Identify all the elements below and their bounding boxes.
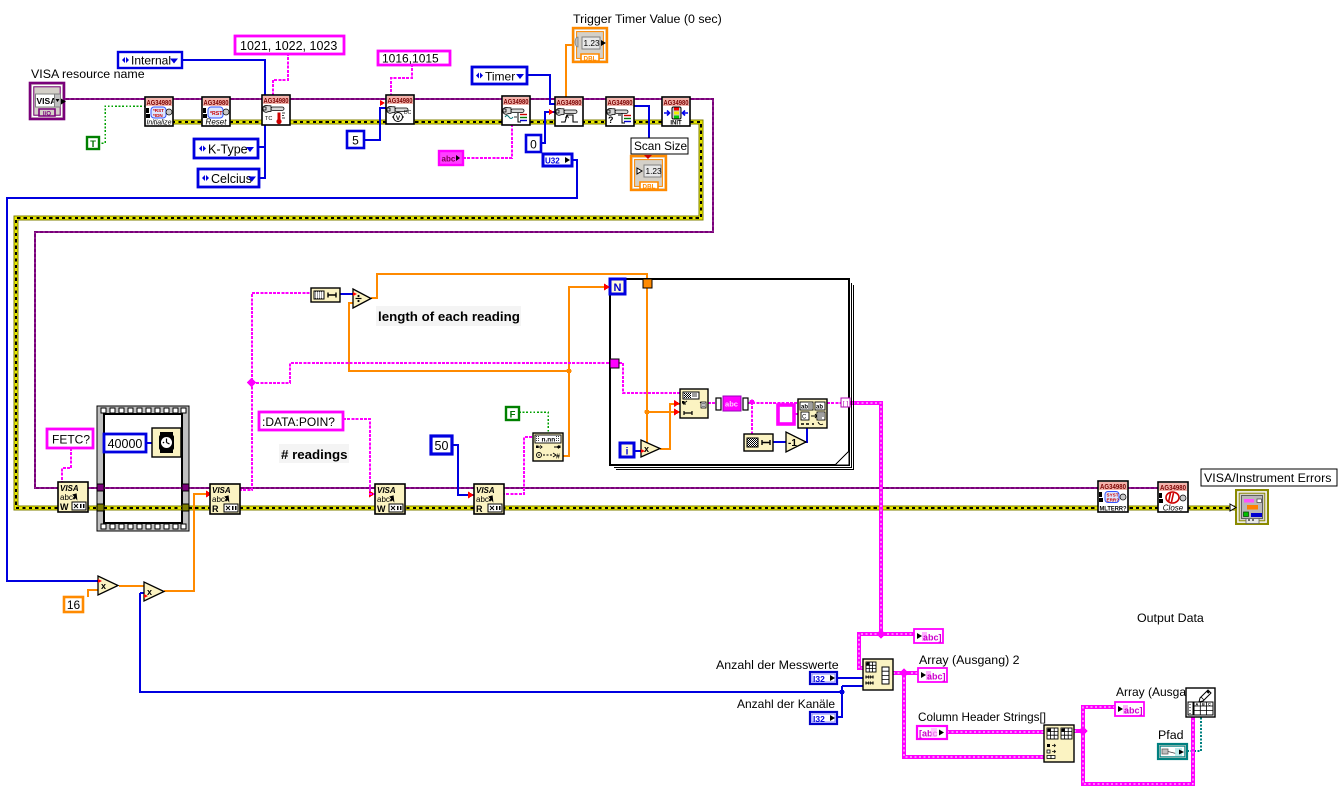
svg-text:MLTERR?: MLTERR? xyxy=(1100,506,1127,513)
svg-text:VISA resource name: VISA resource name xyxy=(31,67,145,81)
svg-text:F: F xyxy=(510,410,516,421)
svg-text:abc: abc xyxy=(442,155,456,164)
svg-text:Close: Close xyxy=(1163,504,1184,513)
svg-text:I/O: I/O xyxy=(43,111,51,118)
svg-text:DBL: DBL xyxy=(584,55,597,62)
svg-text:N: N xyxy=(614,282,622,294)
svg-text:-1: -1 xyxy=(788,438,797,449)
svg-text:Internal: Internal xyxy=(131,54,171,68)
svg-text:AG34980: AG34980 xyxy=(1160,483,1186,492)
svg-text:Anzahl der Messwerte: Anzahl der Messwerte xyxy=(716,658,839,672)
svg-text:*RST: *RST xyxy=(210,111,223,117)
svg-text:A: A xyxy=(1196,703,1199,707)
svg-text:R: R xyxy=(212,504,219,514)
svg-text:ab: ab xyxy=(816,405,823,411)
svg-text:I32: I32 xyxy=(813,714,825,724)
svg-text:W: W xyxy=(377,504,386,514)
svg-text:Celcius: Celcius xyxy=(211,172,252,186)
svg-text:Pfad: Pfad xyxy=(1158,728,1184,742)
svg-text:FETC?: FETC? xyxy=(52,433,90,447)
svg-text:[ ]: [ ] xyxy=(843,401,849,408)
svg-text:length of each reading: length of each reading xyxy=(378,309,520,324)
svg-text:T: T xyxy=(90,139,96,150)
svg-text:K-Type: K-Type xyxy=(208,143,248,157)
svg-text:1.23: 1.23 xyxy=(584,38,601,48)
svg-text:# readings: # readings xyxy=(281,447,348,462)
svg-text:ERR?: ERR? xyxy=(1107,498,1120,503)
svg-text:I32: I32 xyxy=(813,674,825,684)
svg-text:TC: TC xyxy=(265,116,272,122)
svg-text:abc]: abc] xyxy=(923,633,942,643)
svg-text:x: x xyxy=(644,444,649,454)
svg-text:U32: U32 xyxy=(545,157,560,166)
svg-text:x: x xyxy=(147,587,152,597)
svg-text:*IDN: *IDN xyxy=(153,113,163,118)
svg-text:DBL: DBL xyxy=(643,183,656,190)
svg-text:#: # xyxy=(556,454,560,461)
svg-text::DATA:POIN?: :DATA:POIN? xyxy=(262,415,335,429)
svg-text:1.23: 1.23 xyxy=(646,166,663,176)
svg-text:V: V xyxy=(396,115,401,122)
svg-text:abc: abc xyxy=(725,400,738,409)
svg-text:R: R xyxy=(476,504,483,514)
svg-text:1016,1015: 1016,1015 xyxy=(382,52,439,66)
svg-text:VISA/Instrument Errors: VISA/Instrument Errors xyxy=(1204,471,1331,485)
svg-text:Column Header Strings[]: Column Header Strings[] xyxy=(918,711,1046,724)
svg-text:INIT: INIT xyxy=(670,121,682,127)
svg-text:abc]: abc] xyxy=(927,672,946,682)
svg-text:1021, 1022, 1023: 1021, 1022, 1023 xyxy=(240,39,337,53)
svg-text:C: C xyxy=(1208,703,1211,707)
svg-text:40000: 40000 xyxy=(108,437,143,451)
svg-text:abc]: abc] xyxy=(1124,706,1143,716)
svg-text:Initialize: Initialize xyxy=(147,120,172,127)
svg-text:Output Data: Output Data xyxy=(1137,611,1204,625)
svg-text:Reset: Reset xyxy=(206,118,228,127)
svg-text:Timer: Timer xyxy=(485,70,515,84)
svg-text:W: W xyxy=(60,502,69,512)
svg-text:i: i xyxy=(626,447,629,458)
svg-text:?: ? xyxy=(608,115,614,125)
svg-text:DC: DC xyxy=(404,110,412,116)
svg-text:Scan Size: Scan Size xyxy=(634,139,688,153)
svg-text:5: 5 xyxy=(352,134,359,148)
svg-text:0: 0 xyxy=(530,138,537,152)
svg-text:x: x xyxy=(101,581,106,591)
svg-text:AG34980: AG34980 xyxy=(264,96,289,105)
svg-text:B: B xyxy=(1202,703,1205,707)
svg-text:50: 50 xyxy=(435,439,449,453)
svg-text:ab: ab xyxy=(801,405,808,411)
svg-text:C: C xyxy=(802,415,807,421)
svg-text:Array (Ausga: Array (Ausga xyxy=(1116,685,1186,699)
svg-text:AG34980: AG34980 xyxy=(1100,482,1126,491)
svg-text:n.nn: n.nn xyxy=(542,437,556,444)
svg-text:VISA: VISA xyxy=(37,96,57,106)
svg-text:Trigger Timer Value (0 sec): Trigger Timer Value (0 sec) xyxy=(573,12,722,26)
svg-text:Array (Ausgang) 2: Array (Ausgang) 2 xyxy=(919,653,1020,667)
svg-text:16: 16 xyxy=(67,598,81,612)
svg-text:Anzahl der Kanäle: Anzahl der Kanäle xyxy=(737,697,835,711)
